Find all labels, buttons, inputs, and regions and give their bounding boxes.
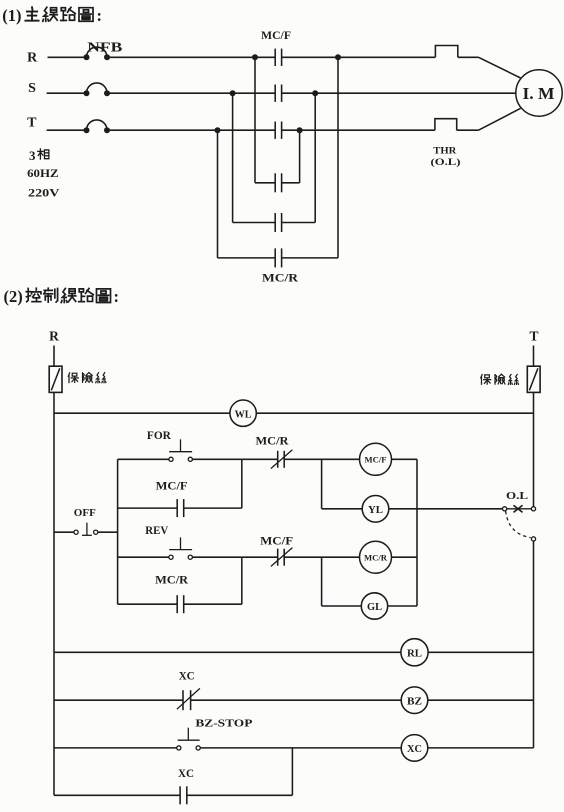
motor I.M (516, 70, 562, 116)
heater THR pole R (435, 46, 457, 58)
svg-text:BZ-STOP: BZ-STOP (195, 717, 252, 729)
svg-text:T: T (529, 329, 538, 344)
svg-text:XC: XC (407, 744, 422, 755)
svg-text:MC/F: MC/F (261, 30, 291, 42)
relay coil XC (401, 735, 428, 762)
svg-text:I. M: I. M (523, 84, 555, 103)
wire R after THR (458, 56, 479, 58)
wire R lead-in (48, 56, 87, 58)
svg-text:XC: XC (179, 670, 195, 682)
junction T upstream (215, 127, 221, 133)
svg-text:OFF: OFF (74, 507, 96, 519)
wire R to THR (282, 56, 436, 58)
wire R diagonal to motor (479, 57, 521, 78)
junction T downstream (297, 127, 303, 133)
svg-text:FOR: FOR (147, 430, 172, 442)
wire rail T upstream down (217, 130, 219, 258)
junction S downstream (312, 90, 318, 96)
contact MC/F interlock (NC) (242, 556, 278, 558)
fuse R (保險絲) (53, 346, 55, 367)
wire reverse block right rail (241, 557, 243, 604)
junction R upstream (252, 54, 258, 60)
lamp GL (322, 605, 362, 607)
svg-text:T: T (27, 116, 37, 131)
svg-text:THR: THR (433, 147, 456, 157)
pushbutton BZ-STOP (NO) (54, 747, 177, 749)
wire coil block right rail (416, 459, 418, 606)
contact MC/F auxiliary (NO) (118, 507, 178, 509)
wire right rail T lower (533, 541, 535, 748)
svg-text:(2): (2) (4, 287, 23, 306)
breaker NFB pole T (84, 127, 90, 133)
svg-text:(1): (1) (2, 6, 21, 25)
svg-text:GL: GL (367, 602, 382, 613)
wire yl branch rail (321, 459, 323, 509)
buzzer BZ (401, 687, 428, 714)
wire YL to overload contact (389, 508, 503, 510)
wire T to MC/F contact (107, 129, 275, 131)
svg-text:WL: WL (235, 409, 252, 420)
pushbutton REV (NO) (118, 556, 169, 558)
junction R downstream (335, 54, 341, 60)
svg-text:R: R (27, 50, 38, 65)
svg-text::: : (97, 6, 103, 25)
svg-text:MC/F: MC/F (156, 481, 188, 493)
contactor contact MC/F pole T (274, 122, 276, 139)
wire T after THR (457, 129, 479, 131)
svg-text:BZ: BZ (407, 696, 422, 707)
wire MC/R coil to right rail (392, 556, 418, 558)
wire T to THR (282, 129, 435, 131)
svg-text:RL: RL (407, 649, 422, 660)
svg-text:MC/R: MC/R (262, 271, 298, 285)
breaker NFB pole S (84, 90, 90, 96)
wire T diagonal to motor (479, 108, 521, 130)
svg-text:220V: 220V (28, 185, 60, 199)
svg-text:REV: REV (145, 525, 169, 537)
wire rail S upstream down (232, 93, 234, 222)
svg-text:MC/R: MC/R (256, 435, 290, 447)
wire T lead-in (47, 129, 87, 131)
label 保險絲 right (481, 375, 491, 385)
wire gl branch rail (321, 557, 323, 606)
wire XC bypass riser (291, 748, 293, 795)
coil MC/R (360, 541, 392, 573)
svg-text:(O.L): (O.L) (431, 157, 461, 168)
wire rail R downstream down (337, 57, 339, 258)
lamp WL (230, 400, 256, 426)
svg-text:3: 3 (29, 148, 36, 163)
label 保險絲 left (68, 373, 78, 383)
fuse T (保險絲) (533, 346, 535, 367)
wire rail S downstream down (314, 93, 316, 222)
wire left rail R (53, 392, 55, 795)
overload contact O.L (503, 507, 507, 511)
wire right rail T upper (533, 392, 535, 506)
wire rail R upstream down (254, 57, 256, 183)
wire S lead-in (47, 92, 87, 94)
contact MC/R interlock (NC) (242, 458, 278, 460)
contactor contact MC/R pole 2 (233, 222, 276, 224)
svg-text:YL: YL (368, 505, 383, 516)
svg-text:R: R (49, 329, 59, 344)
svg-text:60HZ: 60HZ (27, 166, 58, 180)
junction S upstream (230, 90, 236, 96)
wire R to MC/F contact (107, 56, 275, 58)
wire WL bus right (256, 412, 533, 414)
svg-text:XC: XC (178, 768, 194, 780)
contactor contact MC/F pole R (274, 49, 276, 66)
wire S to MC/F contact (107, 92, 275, 94)
svg-text::: : (114, 287, 120, 306)
pushbutton FOR (NO) (118, 458, 169, 460)
wire S to motor (282, 92, 516, 94)
breaker NFB pole R (84, 54, 90, 60)
contactor contact MC/R pole 3 (218, 257, 276, 259)
wire WL bus left (54, 412, 230, 414)
svg-text:MC/R: MC/R (155, 574, 189, 586)
contactor contact MC/R pole 1 (255, 182, 275, 184)
contact XC (NC) (54, 699, 183, 701)
wire block left rail (117, 459, 119, 604)
lamp RL (401, 639, 428, 666)
coil MC/F (360, 443, 392, 475)
lamp RL rung (54, 651, 401, 653)
wire rail T downstream down (299, 130, 301, 183)
contact MC/R auxiliary (NO) (118, 603, 178, 605)
svg-text:O.L: O.L (506, 491, 528, 502)
contactor contact MC/F pole S (274, 85, 276, 102)
svg-text:S: S (28, 81, 36, 96)
svg-text:MC/F: MC/F (260, 535, 293, 547)
svg-text:MC/F: MC/F (365, 455, 387, 465)
heater THR pole T (435, 119, 457, 131)
lamp YL (322, 508, 363, 510)
wire MC/F coil to right rail (392, 458, 418, 460)
pushbutton OFF (NC) (54, 531, 74, 533)
svg-text:MC/R: MC/R (364, 553, 388, 563)
contact XC auxiliary (NO) (54, 794, 180, 796)
wire forward block right rail (241, 459, 243, 508)
